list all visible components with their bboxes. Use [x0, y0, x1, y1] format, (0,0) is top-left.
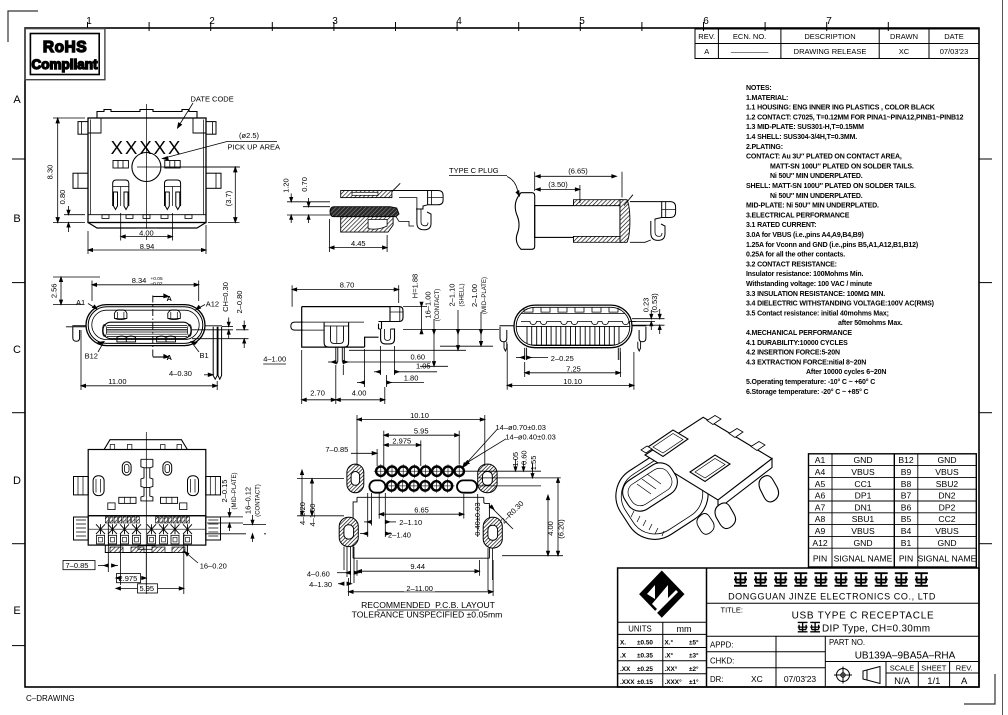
plug tongue dark	[330, 207, 399, 217]
svg-text:2–1.10: 2–1.10	[448, 284, 457, 307]
svg-text:3.5 Contact resistance: initia: 3.5 Contact resistance: initial 40mohms …	[746, 310, 889, 317]
top cap	[104, 440, 187, 450]
svg-text:3.2 CONTACT RESISTANCE:: 3.2 CONTACT RESISTANCE:	[746, 261, 837, 268]
center slot column	[141, 459, 153, 501]
svg-text:3.3 INSULATION RESISTANCE: 100: 3.3 INSULATION RESISTANCE: 100MΩ MIN.	[746, 291, 885, 298]
hook	[651, 221, 665, 240]
0.60	[328, 361, 335, 363]
company name CJK (stylized)	[734, 573, 928, 586]
svg-text:4.00: 4.00	[546, 521, 555, 536]
deck small tabs	[707, 416, 765, 451]
svg-text:A9: A9	[815, 526, 826, 536]
svg-text:DP1: DP1	[855, 491, 872, 501]
svg-text:.XXX: .XXX	[620, 679, 635, 686]
svg-text:REV.: REV.	[698, 32, 715, 41]
svg-text:A12: A12	[206, 300, 219, 309]
svg-text:9.44: 9.44	[410, 562, 425, 571]
front slot opening	[617, 457, 682, 516]
bottom strip trapezoid	[88, 223, 206, 229]
svg-text:A: A	[167, 294, 173, 303]
svg-text:XC: XC	[751, 674, 763, 684]
TYPE C PLUG leader	[507, 177, 520, 197]
side tab upper-right	[206, 122, 216, 135]
X pin row	[89, 524, 205, 534]
oblong pads ends	[369, 480, 385, 492]
view 1 dimensions	[53, 103, 277, 254]
svg-text:4.3 EXTRACTION FORCE:nitial 8~: 4.3 EXTRACTION FORCE:nitial 8~20N	[746, 359, 866, 366]
2-11.00	[348, 578, 350, 596]
svg-text:ECN. NO.: ECN. NO.	[733, 32, 766, 41]
svg-text:A: A	[167, 353, 173, 362]
svg-text:X.°: X.°	[665, 639, 674, 647]
center bottom leg	[715, 503, 736, 529]
16-1.00 contact arrow	[433, 319, 435, 366]
svg-text:2–0.15: 2–0.15	[220, 480, 229, 503]
svg-text:7–0.85: 7–0.85	[66, 561, 89, 570]
svg-text:SCALE: SCALE	[890, 664, 915, 673]
svg-text:4–1.00: 4–1.00	[263, 355, 286, 364]
seating plane ext to right	[403, 328, 499, 330]
left hook leg	[72, 326, 86, 342]
svg-text:0.70: 0.70	[300, 177, 309, 192]
stadium shells	[86, 305, 205, 346]
4.00 / (6.20)	[547, 495, 549, 556]
small rects left of circle	[113, 161, 128, 169]
svg-text:0.60: 0.60	[520, 450, 529, 465]
comb ticks on lower lip	[631, 511, 664, 536]
svg-text:14–ø0.70±0.03: 14–ø0.70±0.03	[496, 423, 546, 432]
svg-text:4.45: 4.45	[351, 239, 366, 248]
svg-text:A6: A6	[815, 491, 826, 501]
svg-text:2–1.10: 2–1.10	[399, 518, 422, 527]
svg-text:SIGNAL NAME: SIGNAL NAME	[918, 554, 977, 564]
5.95	[383, 431, 385, 466]
svg-text:DN2: DN2	[938, 491, 955, 501]
lower side flanges	[74, 517, 89, 540]
spring contact left	[113, 180, 129, 210]
2-1.10 shell arrow	[457, 310, 459, 350]
small mid leg	[697, 514, 714, 535]
leg ext lines	[107, 522, 109, 572]
dim 8.34	[91, 281, 93, 302]
svg-text:(3.7): (3.7)	[224, 190, 233, 206]
svg-text:Ni 50U″ MIN UNDERPLATED.: Ni 50U″ MIN UNDERPLATED.	[770, 173, 863, 180]
svg-text:UNITS: UNITS	[628, 625, 651, 634]
svg-text:SHEET: SHEET	[921, 664, 946, 673]
svg-text:PICK UP AREA: PICK UP AREA	[228, 143, 281, 152]
contact lines inside slot	[637, 474, 661, 494]
svg-text:2.975: 2.975	[119, 574, 138, 583]
deck hole 2	[690, 455, 730, 482]
contact tails below	[336, 347, 345, 363]
shell hatched strips	[573, 200, 622, 206]
svg-text:RECOMMENDED P.C.B. LAYOUT: RECOMMENDED P.C.B. LAYOUT	[361, 600, 496, 610]
svg-text:B: B	[13, 213, 20, 225]
svg-text:3: 3	[332, 16, 338, 27]
4-2.20 / 4-1.50	[297, 478, 344, 480]
svg-text:GND: GND	[853, 538, 872, 548]
row1 hatched squares	[105, 517, 189, 523]
svg-text:5.Operating temperature: -10°: 5.Operating temperature: -10° C ~ +60° C	[746, 378, 875, 386]
top latch bumps	[114, 310, 127, 320]
2-0.15 mid-plate	[207, 516, 243, 518]
corner blocks	[88, 118, 101, 133]
svg-text:(ø2.5): (ø2.5)	[239, 131, 260, 140]
svg-text:16–0.20: 16–0.20	[200, 561, 227, 570]
svg-text:D: D	[13, 475, 21, 487]
logo	[639, 571, 684, 618]
svg-text:2: 2	[209, 16, 215, 27]
svg-text:Insulator resistance: 100Mohms: Insulator resistance: 100Mohms Min.	[746, 271, 863, 278]
svg-text:XXXXX: XXXXX	[111, 137, 183, 158]
svg-text:1.2 CONTACT: C7025, T=0.12MM F: 1.2 CONTACT: C7025, T=0.12MM FOR PINA1~P…	[746, 114, 964, 121]
6.65	[378, 492, 380, 519]
svg-text:CHKD:: CHKD:	[710, 657, 734, 666]
upper side flanges	[74, 477, 89, 495]
svg-text:B9: B9	[901, 467, 912, 477]
svg-text:TYPE C PLUG: TYPE C PLUG	[449, 166, 499, 175]
svg-text:CC2: CC2	[938, 514, 955, 524]
view 6 dims	[63, 508, 266, 594]
svg-text:DIP Type, CH=0.30mm: DIP Type, CH=0.30mm	[822, 624, 930, 635]
centerline vertical	[145, 104, 147, 240]
receptacle mouth hatched band	[620, 200, 630, 243]
svg-text:SHELL: MATT-SN 100U″ PLATED ON: SHELL: MATT-SN 100U″ PLATED ON SOLDER TA…	[746, 183, 916, 190]
7-0.85	[376, 449, 378, 466]
mid line	[516, 325, 630, 327]
svg-text:PIN: PIN	[899, 554, 913, 564]
mid-row small rects	[119, 497, 136, 503]
2.975 box	[117, 574, 141, 583]
svg-text:2–0.25: 2–0.25	[551, 354, 574, 363]
view 3 dims	[292, 285, 499, 404]
svg-text:2–1.00: 2–1.00	[470, 284, 479, 307]
main body outline	[88, 118, 206, 223]
svg-text:2–1.40: 2–1.40	[388, 530, 411, 539]
svg-text:CH=0.30: CH=0.30	[221, 282, 230, 312]
side slots inside body	[93, 476, 104, 496]
4-0.30 dim	[199, 371, 219, 373]
svg-text:SBU1: SBU1	[852, 514, 875, 524]
svg-text:Compliant: Compliant	[32, 57, 99, 72]
top small tabs row	[524, 308, 618, 313]
svg-text:8.94: 8.94	[140, 242, 155, 251]
hook	[417, 209, 431, 230]
svg-text:2.56: 2.56	[49, 283, 58, 298]
2.70 4.00	[302, 399, 336, 401]
main body	[88, 450, 206, 516]
svg-text:(CONTACT): (CONTACT)	[256, 484, 262, 517]
front shell stadium (big rounded face)	[604, 439, 719, 551]
svg-text:A: A	[704, 47, 709, 56]
svg-text:3.4 DIELECTRIC WITHSTANDING VO: 3.4 DIELECTRIC WITHSTANDING VOLTAGE:100V…	[746, 301, 934, 308]
tongue	[103, 322, 191, 339]
view 2 dims	[53, 277, 249, 390]
svg-text:mm: mm	[677, 624, 692, 634]
svg-text:(6.65): (6.65)	[568, 167, 588, 176]
right sheet edge line	[1002, 0, 1004, 715]
svg-text:10.10: 10.10	[410, 411, 429, 420]
svg-text:A: A	[961, 676, 968, 687]
svg-text:B8: B8	[901, 479, 912, 489]
svg-text:1.4 SHELL: SUS304-3/4H,T=0.3MM: 1.4 SHELL: SUS304-3/4H,T=0.3MM.	[746, 134, 857, 141]
8.70	[291, 285, 293, 307]
svg-text:.X°: .X°	[665, 652, 674, 660]
title block	[618, 568, 979, 687]
svg-text:3.1 RATED CURRENT:: 3.1 RATED CURRENT:	[746, 222, 816, 229]
16-0.12 contact	[207, 524, 266, 526]
svg-text:3.0A for VBUS (i.e.,pins A4,A9: 3.0A for VBUS (i.e.,pins A4,A9,B4,B9)	[746, 232, 864, 239]
receptacle rear outline	[392, 191, 443, 210]
centerline horizontal	[137, 166, 240, 168]
svg-text:1.25A for Vconn and GND (i.e.,: 1.25A for Vconn and GND (i.e.,pins B5,A1…	[746, 242, 918, 249]
body outline	[302, 307, 390, 348]
small rects right of circle	[165, 161, 180, 169]
svg-text:VBUS: VBUS	[851, 526, 875, 536]
svg-text:APPD:: APPD:	[710, 641, 733, 650]
svg-text:±1°: ±1°	[689, 678, 699, 686]
svg-text:(SHELL): (SHELL)	[460, 283, 466, 306]
DATE CODE leader	[178, 103, 194, 128]
svg-text:Withstanding voltage: 100 VAC: Withstanding voltage: 100 VAC / minute	[746, 281, 872, 288]
svg-text:4.2 INSERTION FORCE:5-20N: 4.2 INSERTION FORCE:5-20N	[746, 350, 840, 357]
row3 rects	[97, 535, 192, 544]
svg-text:C: C	[13, 344, 21, 356]
right hook	[632, 326, 646, 342]
10.10	[506, 344, 508, 390]
svg-text:GND: GND	[937, 455, 956, 465]
svg-text:After 10000 cycles 6~20N: After 10000 cycles 6~20N	[806, 369, 886, 376]
pin table	[809, 454, 977, 567]
svg-text:H=1.88: H=1.88	[411, 274, 420, 298]
svg-text:0.40±0.03: 0.40±0.03	[473, 502, 482, 535]
dim 8.30	[53, 117, 85, 119]
svg-text:CONTACT: Au 3U″ PLATED ON CONT: CONTACT: Au 3U″ PLATED ON CONTACT AREA,	[746, 154, 902, 161]
2-1.40	[367, 493, 369, 537]
scalloped band	[521, 313, 625, 315]
svg-text:B1: B1	[200, 351, 209, 360]
svg-text:2.975: 2.975	[392, 436, 411, 445]
svg-text:GND: GND	[937, 538, 956, 548]
svg-text:(MID–PLATE): (MID–PLATE)	[482, 277, 488, 314]
svg-text:DRAWN: DRAWN	[890, 32, 918, 41]
10.10	[356, 415, 358, 466]
plug shell bottom hatched	[341, 217, 393, 232]
svg-text:(CONTACT): (CONTACT)	[435, 289, 441, 322]
2.975	[420, 441, 422, 467]
H=1.88	[421, 307, 423, 330]
svg-text:DATE CODE: DATE CODE	[191, 95, 234, 104]
svg-text:B12: B12	[898, 455, 914, 465]
svg-text:XC: XC	[899, 47, 910, 56]
right lug	[759, 476, 779, 502]
dim 4.00	[120, 213, 122, 241]
svg-text:6.Storage temperature: -20° C: 6.Storage temperature: -20° C ~ +85° C	[746, 388, 869, 396]
big hatched pads	[339, 464, 502, 548]
svg-text:1/1: 1/1	[927, 676, 940, 687]
svg-text:DRAWING RELEASE: DRAWING RELEASE	[794, 47, 867, 56]
svg-text:1.MATERIAL:: 1.MATERIAL:	[746, 95, 788, 102]
svg-text:A: A	[13, 94, 21, 106]
svg-text:PART NO.: PART NO.	[829, 638, 865, 647]
svg-text:(MID–PLATE): (MID–PLATE)	[232, 473, 238, 510]
svg-text:4.00: 4.00	[352, 388, 367, 397]
svg-text:GND: GND	[853, 455, 872, 465]
svg-text:14–ø0.40±0.03: 14–ø0.40±0.03	[505, 433, 555, 442]
svg-text:4–0.60: 4–0.60	[307, 569, 330, 578]
pick up leader	[163, 142, 278, 159]
revision table	[695, 29, 979, 59]
bottom latch bumps	[117, 336, 136, 342]
left ruler letters	[13, 94, 21, 617]
svg-text:±5°: ±5°	[689, 639, 699, 647]
16-0.20 leader	[185, 552, 199, 564]
board outline	[353, 497, 489, 558]
svg-text:B12: B12	[85, 352, 98, 361]
svg-text:B7: B7	[901, 491, 912, 501]
svg-text:4.MECHANICAL PERFORMANCE: 4.MECHANICAL PERFORMANCE	[746, 330, 852, 337]
bottom strip w tabs	[105, 545, 187, 552]
svg-text:4.00: 4.00	[139, 229, 154, 238]
svg-text:RoHS: RoHS	[43, 39, 87, 56]
11.00 dim	[80, 330, 82, 390]
right pad ext lines	[465, 470, 541, 472]
section A-A line	[152, 296, 154, 359]
svg-text:2.70: 2.70	[310, 388, 325, 397]
right side face	[718, 459, 772, 509]
svg-text:REV.: REV.	[956, 664, 973, 673]
spring contact right	[165, 180, 181, 210]
svg-text:.XXX°: .XXX°	[665, 678, 683, 686]
svg-text:.XX: .XX	[620, 666, 631, 673]
leaders 14-o	[463, 430, 498, 468]
svg-text:16–0.12: 16–0.12	[244, 487, 253, 514]
svg-text:7.25: 7.25	[566, 364, 581, 373]
svg-text:0.60: 0.60	[411, 353, 426, 362]
svg-text:–0.02: –0.02	[151, 281, 163, 287]
svg-text:(0.53): (0.53)	[650, 293, 659, 313]
svg-text:07/03'23: 07/03'23	[940, 47, 969, 56]
lower band	[88, 516, 206, 545]
svg-text:4–1.30: 4–1.30	[309, 580, 332, 589]
0.40±0.03	[477, 494, 479, 537]
diagonal edge	[624, 195, 633, 206]
leg lines under ML pad	[344, 547, 354, 583]
dim (3.7)	[163, 166, 240, 168]
side tab lower-right	[206, 173, 221, 188]
left hook	[500, 326, 515, 342]
svg-text:N/A: N/A	[894, 676, 911, 687]
svg-text:1.05: 1.05	[416, 361, 431, 370]
svg-text:DR:: DR:	[710, 675, 723, 684]
svg-text:8.70: 8.70	[340, 281, 355, 290]
svg-text:4–1.50: 4–1.50	[308, 504, 317, 527]
deck hole 1	[648, 430, 688, 457]
svg-text:PIN: PIN	[813, 554, 827, 564]
svg-text:8.34: 8.34	[132, 276, 147, 285]
svg-text:1.20: 1.20	[282, 178, 291, 193]
svg-text:1.05: 1.05	[511, 452, 520, 467]
plug cap with wavy left	[515, 193, 534, 250]
svg-text:10.10: 10.10	[563, 377, 582, 386]
svg-text:6.65: 6.65	[414, 506, 429, 515]
svg-text:(6.20): (6.20)	[556, 519, 565, 539]
bottom inner line and bumps	[88, 214, 206, 216]
2-1.10	[370, 493, 372, 526]
7-0.85 box + dim	[63, 561, 95, 570]
side tab upper-left	[78, 122, 88, 135]
svg-text:SIGNAL NAME: SIGNAL NAME	[834, 554, 893, 564]
leaders A1 A12 B12 B1	[88, 304, 97, 310]
svg-text:DP2: DP2	[939, 502, 956, 512]
2-1.00 mid-plate arrow	[480, 312, 482, 346]
0.23 / (0.53)	[632, 318, 665, 320]
svg-text:±3°: ±3°	[689, 652, 699, 660]
svg-text:.XX°: .XX°	[665, 665, 678, 673]
receptacle outline right	[630, 202, 676, 221]
svg-text:CC1: CC1	[854, 479, 871, 489]
corner mark bottom-right	[964, 674, 995, 704]
svg-text:A7: A7	[815, 502, 826, 512]
svg-text:DESCRIPTION: DESCRIPTION	[804, 32, 855, 41]
svg-text:DN1: DN1	[854, 502, 871, 512]
side tab lower-left	[73, 173, 88, 188]
svg-text:A12: A12	[812, 538, 828, 548]
svg-text:1.1 HOUSING: ENG INNER ING PLA: 1.1 HOUSING: ENG INNER ING PLASTICS , CO…	[746, 105, 935, 112]
svg-text:NOTES:: NOTES:	[746, 85, 772, 92]
svg-text:4–2.20: 4–2.20	[298, 502, 307, 525]
top ruler ticks	[88, 22, 889, 31]
2-0.25	[516, 357, 524, 359]
svg-text:2–0.80: 2–0.80	[235, 291, 244, 314]
svg-text:A1: A1	[815, 455, 826, 465]
comb slats	[522, 326, 624, 345]
svg-text:USB TYPE C RECEPTACLE: USB TYPE C RECEPTACLE	[792, 611, 935, 622]
svg-text:MID-PLATE: Ni 50U″ MIN UNDERPL: MID-PLATE: Ni 50U″ MIN UNDERPLATED.	[746, 203, 879, 210]
front wall right	[379, 307, 404, 322]
svg-text:±0.25: ±0.25	[637, 666, 653, 673]
svg-text:4: 4	[456, 16, 462, 27]
CH dim	[222, 326, 233, 328]
svg-text:UB139A–9BA5A–RHA: UB139A–9BA5A–RHA	[855, 651, 956, 662]
pad circles	[374, 464, 466, 493]
right hook leg + long legs	[205, 325, 222, 327]
9.44	[356, 560, 358, 576]
dim 2.56	[53, 276, 100, 278]
svg-text:±0.15: ±0.15	[637, 679, 653, 686]
svg-text:5.95: 5.95	[414, 427, 429, 436]
top deck	[645, 417, 772, 500]
svg-text:±0.50: ±0.50	[637, 640, 653, 647]
svg-text:A1: A1	[76, 298, 85, 307]
svg-text:B1: B1	[901, 538, 912, 548]
front hook leg	[379, 322, 395, 344]
svg-text:5: 5	[579, 16, 585, 27]
shaft	[535, 206, 620, 238]
1.80	[357, 382, 364, 384]
projection symbol	[834, 667, 880, 684]
svg-text:8.30: 8.30	[46, 165, 55, 180]
svg-text:VBUS: VBUS	[935, 467, 959, 477]
dim 8.94	[87, 231, 89, 254]
dim 0.80	[64, 214, 85, 216]
svg-text:X.: X.	[620, 640, 626, 647]
right ruler ticks	[979, 159, 992, 544]
svg-text:TOLERANCE UNSPECIFIED ±0.05mm: TOLERANCE UNSPECIFIED ±0.05mm	[352, 610, 503, 620]
cjk title glyphs	[798, 622, 820, 631]
svg-text:C–DRAWING: C–DRAWING	[26, 694, 75, 703]
svg-text:1.55: 1.55	[529, 456, 538, 471]
